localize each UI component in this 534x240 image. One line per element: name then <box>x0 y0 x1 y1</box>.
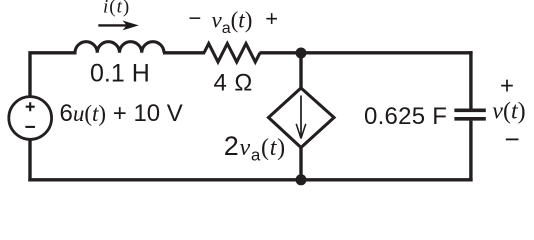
svg-text:+: + <box>265 6 278 31</box>
svg-text:6u(t) + 10 V: 6u(t) + 10 V <box>60 100 183 127</box>
wire: capacitor to bottom-right corner <box>469 121 472 182</box>
wire: bottom <box>28 178 472 181</box>
node: top junction <box>296 48 307 59</box>
inductor L 0.1 H <box>75 42 164 53</box>
svg-text:0.625 F: 0.625 F <box>364 103 447 130</box>
svg-text:4 Ω: 4 Ω <box>214 69 253 96</box>
current arrow for i(t) <box>98 21 139 31</box>
node: bottom junction <box>296 174 307 185</box>
svg-text:−: − <box>189 6 202 31</box>
svg-text:i(t): i(t) <box>103 0 130 18</box>
wire: source bottom to bottom-left corner <box>28 140 31 182</box>
svg-text:v(t): v(t) <box>492 99 525 125</box>
capacitor C 0.625 F <box>454 110 485 119</box>
svg-text:−: − <box>505 124 520 154</box>
wire: top-right corner down to capacitor <box>469 51 472 109</box>
wire: resistor to top-right corner <box>260 51 473 54</box>
wire: top node to dependent source <box>299 53 302 90</box>
resistor R 4Ω <box>204 44 260 62</box>
svg-text:2va(t): 2va(t) <box>224 131 286 165</box>
wire: inductor to resistor <box>163 51 205 54</box>
svg-text:+: + <box>500 72 514 99</box>
wire: dependent source to bottom node <box>299 146 302 180</box>
svg-text:va(t): va(t) <box>212 7 253 37</box>
voltage source 6u(t)+10V <box>9 97 52 140</box>
svg-text:0.1 H: 0.1 H <box>90 60 150 88</box>
wire: top-left corner / left vertical down to source top <box>30 53 77 97</box>
dependent current source 2va(t) (diamond with down arrow) <box>269 88 335 148</box>
